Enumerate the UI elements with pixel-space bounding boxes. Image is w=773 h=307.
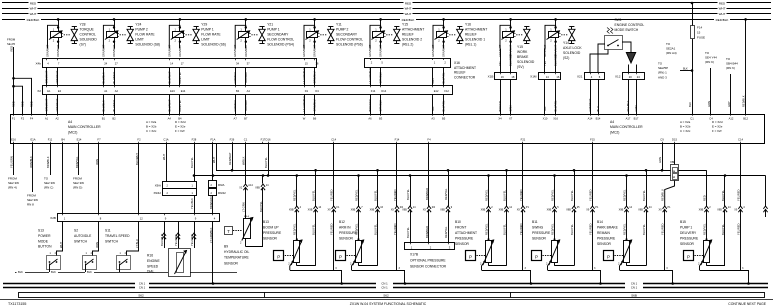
svg-text:WHT: WHT: [405, 7, 412, 11]
node FROM SE2 3W (RN D): [78, 144, 80, 176]
svg-text:SWITCH: SWITCH: [74, 239, 88, 243]
controller A4 main controller (MC2) box: [11, 115, 765, 144]
svg-text:PRESSURE: PRESSURE: [263, 231, 282, 235]
svg-text:GRN/WHT: GRN/WHT: [45, 98, 49, 111]
svg-text:YEL/GRN: YEL/GRN: [190, 234, 194, 246]
svg-text:YEL/GRN: YEL/GRN: [9, 156, 13, 168]
svg-text:YEL/RED: YEL/RED: [736, 189, 740, 201]
svg-text:P: P: [535, 254, 538, 259]
svg-text:24: 24: [637, 75, 640, 79]
svg-text:BLU/YEL: BLU/YEL: [264, 156, 268, 168]
svg-text:E2: E2: [58, 89, 62, 93]
svg-text:P: P: [607, 254, 610, 259]
svg-text:E = X2e: E = X2e: [712, 125, 723, 129]
svg-text:C = X2c: C = X2c: [146, 129, 157, 133]
ground bus S62 / S6B: [19, 293, 765, 298]
svg-text:E24: E24: [170, 89, 175, 93]
svg-text:Y11: Y11: [336, 23, 342, 27]
svg-text:RED/YEL: RED/YEL: [444, 188, 448, 200]
svg-text:F21: F21: [521, 138, 526, 142]
svg-text:(RN K): (RN K): [705, 60, 714, 64]
svg-text:S13: S13: [38, 229, 44, 233]
svg-text:SOLENOID: SOLENOID: [80, 38, 98, 42]
resistor R9/42: [209, 189, 217, 196]
wire RED feed with branches: [13, 47, 15, 114]
svg-text:D = X2d: D = X2d: [712, 120, 723, 124]
svg-text:R16: R16: [147, 254, 153, 258]
svg-text:RED/YEL: RED/YEL: [444, 226, 448, 238]
connector X9/A: [166, 144, 168, 182]
svg-text:X2B: X2B: [50, 216, 56, 220]
svg-text:B10: B10: [455, 220, 461, 224]
svg-text:YEL/RED: YEL/RED: [174, 234, 178, 246]
svg-text:MAIN CONTROLLER: MAIN CONTROLLER: [610, 125, 643, 129]
connector X9/42: [163, 189, 197, 196]
svg-text:FLOW CONTROL: FLOW CONTROL: [336, 38, 363, 42]
svg-text:B9: B9: [224, 245, 228, 249]
svg-text:Y14: Y14: [563, 41, 569, 45]
connector X2B (bar): [58, 214, 220, 222]
svg-text:B4: B4: [61, 138, 65, 142]
svg-text:A3: A3: [431, 116, 435, 120]
svg-text:YEL: YEL: [543, 60, 547, 66]
svg-text:P: P: [687, 254, 690, 259]
svg-text:14: 14: [546, 75, 549, 79]
svg-text:X1B: X1B: [488, 75, 494, 79]
footer separator: [0, 299, 773, 301]
svg-text:GRN/WHT: GRN/WHT: [233, 44, 237, 57]
svg-text:(RN) 1: (RN) 1: [658, 71, 667, 75]
svg-text:RED: RED: [21, 101, 25, 107]
svg-text:X9B: X9B: [255, 187, 260, 190]
svg-text:SE2A1: SE2A1: [666, 47, 676, 51]
svg-text:TRAVEL SPEED: TRAVEL SPEED: [105, 234, 130, 238]
svg-text:A14: A14: [588, 116, 593, 120]
svg-text:B12: B12: [339, 220, 345, 224]
svg-text:SE2 3W: SE2 3W: [8, 181, 19, 185]
svg-text:CONNECTOR: CONNECTOR: [454, 75, 476, 79]
svg-text:12: 12: [140, 216, 143, 220]
svg-text:CONTROL: CONTROL: [80, 33, 96, 37]
sensor B15 (PUMP 1 DELIVERY PRESSURE SENSOR): [680, 144, 750, 285]
wire 5V bus end into pump sensor: [706, 170, 708, 206]
svg-text:A14: A14: [248, 184, 253, 187]
svg-text:GRY/BLK: GRY/BLK: [379, 72, 383, 84]
svg-text:PRESSURE: PRESSURE: [339, 231, 358, 235]
wire controller to X2B pin 12: [138, 144, 140, 214]
svg-text:BLK/WHT: BLK/WHT: [135, 153, 139, 165]
svg-text:X16: X16: [553, 116, 558, 120]
svg-text:YEL/RED: YEL/RED: [661, 223, 665, 235]
svg-text:REMAIN: REMAIN: [597, 231, 610, 235]
wire controller via X8b to park brake sensor: [674, 144, 676, 165]
svg-text:BLU: BLU: [596, 106, 600, 111]
svg-text:B6: B6: [313, 116, 317, 120]
svg-text:(S2): (S2): [563, 56, 569, 60]
svg-text:ORN/WHT: ORN/WHT: [178, 44, 182, 57]
svg-text:BRN/YEL: BRN/YEL: [75, 156, 79, 168]
svg-text:Y15: Y15: [402, 23, 408, 27]
svg-text:F14: F14: [697, 26, 703, 30]
wire controller to 5V bus: [216, 144, 218, 171]
svg-text:B12: B12: [743, 116, 748, 120]
solenoid Y29 (PUMP 1): [167, 18, 226, 57]
svg-text:BLU/BLK: BLU/BLK: [101, 72, 105, 83]
svg-text:YEL: YEL: [431, 106, 435, 112]
svg-text:BLK: BLK: [87, 270, 92, 274]
svg-text:BLU/RED: BLU/RED: [112, 72, 116, 84]
switch S11: [105, 221, 139, 272]
svg-text:X9/42: X9/42: [153, 191, 161, 195]
svg-text:F = X2f: F = X2f: [712, 129, 722, 133]
svg-text:CN 1: CN 1: [381, 286, 388, 290]
svg-text:FLOW CONTROL: FLOW CONTROL: [267, 38, 294, 42]
svg-text:SWING: SWING: [532, 226, 544, 230]
solenoid Y15 (ATTACHMENT): [368, 18, 424, 57]
svg-text:RED/YEL: RED/YEL: [550, 189, 554, 201]
wires small connectors to main controller: [500, 80, 502, 114]
svg-text:ORN/WHT: ORN/WHT: [244, 44, 248, 57]
svg-text:(RN D): (RN D): [73, 186, 82, 190]
svg-text:YEL/RED: YEL/RED: [588, 223, 592, 235]
svg-text:RED/BLK: RED/BLK: [402, 18, 415, 22]
sensor B9 hydraulic oil temperature sensor: [224, 144, 269, 266]
svg-text:BRN/RED: BRN/RED: [425, 188, 429, 200]
svg-text:PUMP 1: PUMP 1: [680, 226, 692, 230]
connector X12: [623, 73, 645, 80]
wire R9 to X2B pin 4: [212, 195, 214, 213]
svg-text:ATTACHMENT: ATTACHMENT: [465, 28, 487, 32]
svg-text:FLOW RATE: FLOW RATE: [201, 33, 221, 37]
svg-text:34: 34: [236, 61, 239, 65]
svg-text:RED/WHT: RED/WHT: [228, 152, 232, 165]
svg-text:MODE: MODE: [38, 239, 49, 243]
svg-text:A4: A4: [168, 116, 172, 120]
svg-text:TORQUE: TORQUE: [80, 28, 95, 32]
svg-text:RED/YEL: RED/YEL: [484, 189, 488, 201]
svg-text:A4: A4: [610, 120, 614, 124]
svg-text:YEL/BLK: YEL/BLK: [626, 100, 630, 111]
wire GRN controller to 5V bus: [662, 144, 664, 171]
svg-text:YEL/RED: YEL/RED: [519, 189, 523, 201]
resistor R9/A: [212, 144, 214, 182]
svg-text:X9B: X9B: [370, 209, 375, 212]
svg-text:(RN C): (RN C): [44, 186, 53, 190]
svg-text:YEL/WHT: YEL/WHT: [244, 71, 248, 83]
svg-text:RED/YEL: RED/YEL: [484, 223, 488, 235]
svg-text:CONTINUE NEXT PAGE: CONTINUE NEXT PAGE: [728, 302, 766, 306]
svg-text:ORN/WHT: ORN/WHT: [56, 44, 60, 57]
svg-text:14: 14: [170, 61, 173, 65]
svg-text:RED/BLK: RED/BLK: [742, 95, 746, 107]
svg-text:X9B: X9B: [499, 209, 504, 212]
svg-text:D16: D16: [266, 138, 271, 142]
svg-text:(RN A4): (RN A4): [666, 51, 677, 55]
svg-text:F4: F4: [427, 138, 431, 142]
svg-text:WORK: WORK: [517, 50, 528, 54]
svg-text:GRN/WHT: GRN/WHT: [167, 44, 171, 57]
svg-text:F12: F12: [444, 89, 449, 93]
svg-text:SENSOR: SENSOR: [455, 242, 470, 246]
svg-text:ATTACHMENT: ATTACHMENT: [455, 231, 477, 235]
svg-text:(MC2): (MC2): [610, 130, 619, 134]
svg-text:OPTIONAL PRESSURE: OPTIONAL PRESSURE: [410, 258, 446, 262]
svg-text:(REL 2): (REL 2): [402, 43, 413, 47]
svg-text:PRESSURE: PRESSURE: [597, 237, 616, 241]
svg-text:F2: F2: [21, 116, 25, 120]
svg-text:R9/42: R9/42: [218, 191, 226, 195]
svg-text:TO: TO: [726, 57, 731, 61]
svg-text:GRY: GRY: [727, 101, 731, 107]
svg-text:RED/YEL: RED/YEL: [354, 189, 358, 201]
svg-text:X9B: X9B: [440, 209, 445, 212]
wire controller to X2B pin 1: [62, 144, 64, 214]
svg-text:BLU/YEL: BLU/YEL: [570, 189, 574, 201]
svg-text:ORN: ORN: [95, 159, 99, 165]
svg-text:LIMIT: LIMIT: [135, 38, 144, 42]
svg-text:LT GRN/BLU: LT GRN/BLU: [302, 96, 306, 112]
svg-text:ORN/WHT: ORN/WHT: [112, 44, 116, 57]
svg-text:BLU/RED: BLU/RED: [509, 54, 513, 66]
connector X1B: [495, 73, 517, 80]
svg-text:X10: X10: [543, 116, 548, 120]
svg-text:SECONDARY: SECONDARY: [267, 33, 289, 37]
svg-text:Y24: Y24: [135, 23, 141, 27]
svg-text:Y28: Y28: [80, 23, 86, 27]
svg-text:RED/BLU: RED/BLU: [661, 189, 665, 201]
svg-text:E12: E12: [434, 89, 439, 93]
wire BLK to fuse wire: [680, 70, 692, 72]
svg-text:(REL 1): (REL 1): [465, 43, 476, 47]
svg-text:B1: B1: [102, 116, 106, 120]
svg-text:YEL/BLK: YEL/BLK: [190, 198, 194, 209]
svg-text:X9B: X9B: [402, 209, 407, 212]
svg-text:T: T: [227, 229, 230, 234]
svg-text:BOOM UP: BOOM UP: [263, 226, 279, 230]
svg-text:PARK BRAKE: PARK BRAKE: [597, 226, 619, 230]
svg-text:B2: B2: [112, 116, 116, 120]
svg-text:ORN/WHT: ORN/WHT: [379, 44, 383, 57]
switch SW1 engine control mode switch: [590, 18, 644, 73]
svg-text:Y16: Y16: [465, 23, 471, 27]
svg-text:CN 1: CN 1: [139, 286, 146, 290]
svg-text:RED/YEL: RED/YEL: [293, 223, 297, 235]
svg-text:X21: X21: [577, 75, 583, 79]
svg-text:SOLENOID (S8): SOLENOID (S8): [135, 43, 160, 47]
svg-text:GRN/WHT: GRN/WHT: [302, 44, 306, 57]
potentiometer R16 engine speed dial: [147, 221, 196, 276]
svg-text:RED: RED: [10, 46, 14, 52]
node TO SE2 3W (RN C): [50, 144, 52, 176]
svg-text:SOLENOID: SOLENOID: [563, 51, 581, 55]
svg-text:F2: F2: [137, 138, 141, 142]
svg-text:B7: B7: [244, 116, 248, 120]
svg-text:SENSOR: SENSOR: [263, 237, 278, 241]
svg-text:X9B: X9B: [619, 209, 624, 212]
svg-text:18: 18: [315, 61, 318, 65]
svg-text:BRN/BLK: BRN/BLK: [46, 156, 50, 168]
svg-text:WHT: WHT: [30, 7, 37, 11]
svg-text:E1A: E1A: [30, 138, 35, 142]
svg-text:PUMP 1: PUMP 1: [201, 28, 214, 32]
svg-text:F = X2f: F = X2f: [175, 129, 185, 133]
svg-text:LT GRN/BLK: LT GRN/BLK: [302, 68, 306, 84]
svg-text:WHT: WHT: [405, 12, 412, 16]
svg-text:X17B: X17B: [410, 253, 419, 257]
svg-text:RED/YEL: RED/YEL: [622, 223, 626, 235]
svg-text:YEL/RED: YEL/RED: [393, 223, 397, 235]
connector X8b inline: [671, 165, 679, 181]
svg-text:(RN 6): (RN 6): [726, 66, 735, 70]
svg-text:FROM: FROM: [73, 177, 82, 181]
svg-text:WHT: WHT: [719, 7, 726, 11]
svg-text:Y21: Y21: [267, 23, 273, 27]
svg-text:CN 1: CN 1: [631, 286, 638, 290]
svg-text:FROM: FROM: [8, 177, 17, 181]
svg-text:W/BLK: W/BLK: [241, 156, 245, 165]
node FROM SE2 3W (RN 8): [32, 144, 34, 193]
power bus wires (RED / WHT / WHT / RED/BLK): [2, 2, 29, 4]
svg-text:F7: F7: [97, 138, 101, 142]
svg-text:24: 24: [104, 61, 107, 65]
svg-text:S2: S2: [74, 229, 78, 233]
wire 5V sensor supply bus: [216, 170, 707, 172]
svg-text:BLK: BLK: [51, 270, 56, 274]
svg-text:FROM: FROM: [27, 194, 36, 198]
svg-text:HYDRAULIC OIL: HYDRAULIC OIL: [224, 250, 249, 254]
svg-text:B15: B15: [680, 220, 686, 224]
node FROM SE2 3W (RN 4): [13, 144, 15, 176]
wire controller to X2B pin 8: [98, 144, 100, 214]
svg-text:A4: A4: [68, 120, 72, 124]
svg-text:X9B: X9B: [351, 209, 356, 212]
svg-text:16: 16: [556, 75, 559, 79]
svg-text:BLU/YEL: BLU/YEL: [373, 189, 377, 201]
svg-text:S11: S11: [105, 229, 111, 233]
svg-text:DIAL: DIAL: [147, 270, 154, 274]
svg-text:LIMIT: LIMIT: [201, 38, 210, 42]
svg-text:S6B: S6B: [631, 293, 637, 297]
svg-text:LT GRN/BLK: LT GRN/BLK: [209, 227, 213, 243]
svg-text:YEL: YEL: [498, 60, 502, 66]
svg-text:BLU/YEL: BLU/YEL: [190, 156, 194, 168]
svg-text:B13: B13: [263, 220, 269, 224]
svg-text:BUTTON: BUTTON: [38, 245, 52, 249]
svg-text:BLK: BLK: [18, 270, 23, 274]
svg-text:C1: C1: [244, 138, 248, 142]
svg-text:X4: X4: [498, 116, 502, 120]
svg-text:B = X2b: B = X2b: [680, 125, 691, 129]
svg-text:PUMP 2: PUMP 2: [135, 28, 148, 32]
svg-text:GRN/WHT: GRN/WHT: [588, 98, 592, 111]
svg-text:SECONDARY: SECONDARY: [336, 33, 358, 37]
solenoid Y11 (PUMP 2): [302, 18, 363, 57]
svg-text:SE2/5P: SE2/5P: [658, 66, 668, 70]
connector X17B optional pressure sensor connector: [402, 144, 454, 269]
ground (chassis) arrow: [626, 53, 635, 64]
fuse F14: [691, 2, 694, 5]
sensor B12 (ARM IN PRESSURE SENSOR): [336, 144, 407, 285]
solenoid Y24 (PUMP 2): [101, 18, 160, 57]
svg-text:BLU/YEL: BLU/YEL: [721, 223, 725, 235]
svg-text:SE4 Y44: SE4 Y44: [705, 56, 717, 60]
sensor B11 (SWING PRESSURE SENSOR): [532, 144, 602, 285]
svg-text:ORN/WHT: ORN/WHT: [313, 44, 317, 57]
svg-text:AUTO/IDLE: AUTO/IDLE: [74, 234, 92, 238]
svg-text:C = X2c: C = X2c: [680, 129, 691, 133]
svg-text:BLU/YEL: BLU/YEL: [642, 223, 646, 235]
svg-text:BLK: BLK: [688, 102, 692, 107]
switch S2: [74, 221, 99, 272]
svg-text:BLU/WHT: BLU/WHT: [167, 99, 171, 111]
svg-text:BLU/YEL: BLU/YEL: [721, 189, 725, 201]
sensor B10 (FRONT ATTACHMENT PRESSURE SENSOR): [455, 144, 532, 285]
svg-text:BLU/YEL: BLU/YEL: [311, 189, 315, 201]
svg-text:F14: F14: [395, 138, 400, 142]
svg-text:GRY/BLU: GRY/BLU: [233, 100, 237, 112]
svg-text:BRN/YEL: BRN/YEL: [498, 99, 502, 111]
svg-text:LT BLU: LT BLU: [135, 239, 139, 248]
svg-text:A1: A1: [45, 116, 49, 120]
svg-text:MODE SWITCH: MODE SWITCH: [615, 28, 639, 32]
svg-text:RED/YEL: RED/YEL: [622, 189, 626, 201]
svg-text:RED: RED: [719, 1, 726, 5]
svg-text:GRY: GRY: [431, 78, 435, 84]
svg-text:F4: F4: [30, 116, 34, 120]
svg-text:B17: B17: [634, 116, 639, 120]
svg-text:B4: B4: [236, 89, 240, 93]
svg-text:A = X2a: A = X2a: [680, 120, 691, 124]
svg-text:PRESSURE: PRESSURE: [455, 237, 474, 241]
svg-text:X9B: X9B: [308, 209, 313, 212]
svg-text:D1: D1: [305, 89, 309, 93]
svg-text:X12: X12: [615, 75, 621, 79]
svg-text:SOLENOID 2: SOLENOID 2: [402, 38, 422, 42]
svg-text:GRN: GRN: [634, 105, 638, 111]
solenoid Y21 (PUMP 1): [233, 18, 294, 57]
svg-text:15: 15: [697, 31, 701, 35]
svg-text:BLU/YEL: BLU/YEL: [554, 100, 558, 112]
svg-text:X9/A: X9/A: [155, 184, 161, 188]
svg-text:C14: C14: [738, 138, 743, 142]
svg-text:X16: X16: [454, 61, 460, 65]
svg-text:YEL/RED: YEL/RED: [588, 189, 592, 201]
svg-text:SWITCH: SWITCH: [105, 239, 119, 243]
svg-text:FUSE: FUSE: [697, 36, 705, 40]
svg-text:BLU/RED: BLU/RED: [554, 54, 558, 66]
svg-text:BRN/RED: BRN/RED: [425, 226, 429, 238]
svg-text:MAIN CONTROLLER: MAIN CONTROLLER: [68, 125, 101, 129]
svg-text:C9: C9: [660, 138, 664, 142]
svg-text:GRY/BLU: GRY/BLU: [233, 72, 237, 84]
svg-text:PRESSURE: PRESSURE: [680, 237, 699, 241]
svg-text:ORG/BLU: ORG/BLU: [313, 99, 317, 111]
svg-text:BLK/YEL: BLK/YEL: [259, 201, 263, 212]
svg-text:AND 3: AND 3: [658, 75, 667, 79]
svg-text:ORN/WHT: ORN/WHT: [442, 44, 446, 57]
svg-text:SE-P6: SE-P6: [7, 42, 16, 46]
svg-text:B4: B4: [178, 116, 182, 120]
svg-text:(MC2): (MC2): [68, 130, 77, 134]
svg-text:SPEED: SPEED: [147, 264, 159, 268]
svg-text:B3: B3: [379, 116, 383, 120]
svg-text:X9B: X9B: [638, 209, 643, 212]
wire LT GRN/BLK down to CN: [212, 221, 214, 283]
switch S13: [38, 221, 63, 272]
svg-text:D4: D4: [315, 89, 319, 93]
svg-text:AXLE LOCK: AXLE LOCK: [563, 46, 582, 50]
svg-text:27: 27: [115, 61, 118, 65]
